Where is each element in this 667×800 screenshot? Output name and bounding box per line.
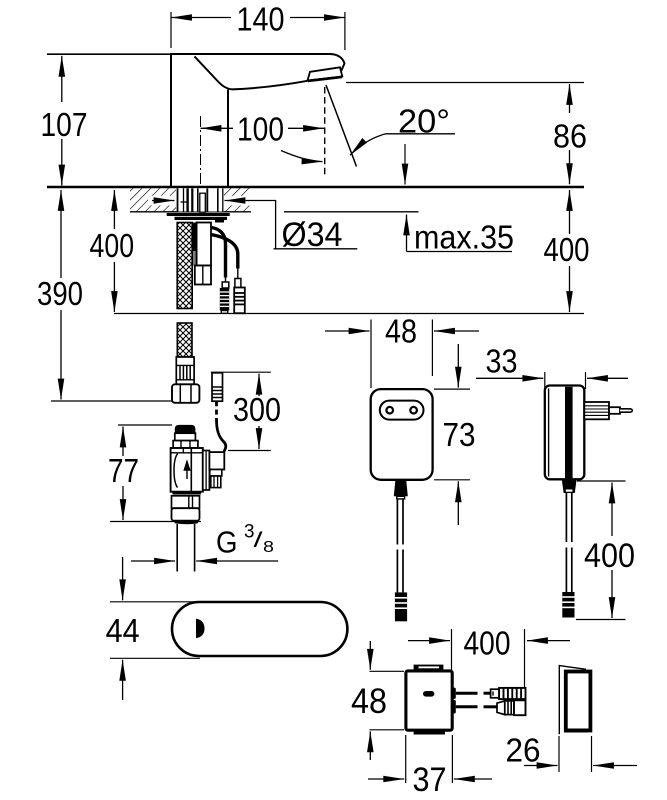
dim 48 box extension lines — [370, 671, 405, 730]
cable 2 from shank — [211, 235, 238, 279]
dim 400 cable dimension line — [408, 640, 570, 642]
svg-text:8: 8 — [263, 539, 274, 556]
plug pin hole right — [410, 407, 417, 414]
svg-text:390: 390 — [37, 275, 83, 312]
dim 400 left dimension line — [113, 190, 115, 312]
dim 37 extension lines — [406, 735, 453, 783]
svg-text:48: 48 — [351, 682, 387, 721]
svg-text:/: / — [254, 529, 263, 552]
braided supply hose — [177, 223, 192, 309]
valve lower section — [172, 496, 200, 508]
max.35 underline — [407, 251, 513, 253]
Ø34 arrows at hole — [152, 201, 357, 249]
dim 390 bottom extension line — [51, 400, 172, 402]
valve detail braided hose — [177, 323, 192, 357]
cable 1 from shank — [211, 228, 226, 283]
valve cable plug — [212, 373, 223, 401]
solenoid flange — [203, 451, 210, 491]
dim 73 dimension line — [457, 344, 459, 525]
dim 86 dimension line — [569, 84, 571, 184]
adapter cable plug — [395, 592, 407, 621]
dim 44 top extension line — [110, 601, 200, 603]
svg-text:300: 300 — [233, 391, 281, 428]
side adapter cable boot — [562, 479, 577, 493]
box cable 2 — [456, 705, 497, 708]
side plate bottom notch — [565, 729, 589, 733]
svg-text:140: 140 — [237, 1, 285, 38]
svg-text:37: 37 — [413, 761, 447, 799]
plug pin hole left — [386, 407, 393, 414]
sensor cable tube — [197, 223, 211, 266]
svg-text:107: 107 — [41, 106, 88, 143]
svg-text:26: 26 — [506, 732, 541, 769]
water stream centerline (dashed) — [324, 87, 326, 176]
dim 300 dimension line — [258, 374, 260, 449]
svg-text:73: 73 — [443, 416, 476, 453]
grohe logo — [423, 691, 434, 697]
svg-text:86: 86 — [553, 118, 587, 155]
G3/8 arrows — [131, 560, 278, 562]
dim 33 extension lines — [545, 372, 586, 389]
adapter cable boot — [394, 481, 408, 499]
angle arc with arrow — [281, 151, 323, 162]
arrow clearing bands — [148, 196, 250, 206]
solenoid coil box — [209, 452, 224, 469]
svg-text:44: 44 — [106, 612, 140, 649]
adapter cable — [397, 499, 403, 592]
svg-text:400: 400 — [544, 231, 590, 268]
dim 400 adapter dimension line — [611, 483, 613, 619]
deck underside line left — [130, 211, 251, 213]
dim 300 bottom extension line — [228, 450, 271, 452]
dim 77 dimension line — [122, 427, 124, 521]
max.35 arrow — [406, 215, 408, 252]
side adapter cable plug — [562, 592, 574, 618]
dim 26 extension lines — [559, 736, 592, 772]
svg-text:100: 100 — [237, 110, 284, 147]
dim 77 bottom extension line — [110, 521, 201, 523]
countertop deck line — [47, 186, 584, 189]
inlet pipe G3/8 — [177, 524, 194, 572]
hose end fitting — [176, 357, 194, 384]
dim 390 dimension line — [60, 190, 62, 400]
dim 33 dimension line — [476, 377, 628, 379]
box plug 2 — [497, 700, 526, 715]
euro plug face — [380, 401, 424, 420]
mains pin — [609, 407, 632, 414]
sensor escutcheon oval — [172, 602, 347, 656]
grey threaded rod — [193, 251, 196, 266]
faucet shank through deck — [177, 188, 225, 212]
power adapter front body — [371, 389, 433, 480]
dim 107 dimension line — [61, 56, 63, 186]
faucet centerline (dash-dot) — [200, 116, 202, 185]
control box body — [406, 671, 452, 730]
mounting washer bar — [167, 213, 230, 223]
svg-text:Ø34: Ø34 — [282, 216, 343, 254]
control box top cap — [414, 665, 444, 671]
dim 48 adapter extension lines — [371, 320, 432, 389]
aerator — [308, 67, 343, 81]
svg-text:20°: 20° — [398, 103, 450, 140]
svg-text:G: G — [216, 526, 238, 560]
control box bottom cap — [414, 730, 445, 734]
power adapter side body — [545, 386, 585, 480]
svg-text:400: 400 — [464, 625, 511, 662]
dim 107 extension line — [47, 53, 171, 55]
lower reference line — [114, 313, 584, 315]
cable 1 plug — [220, 282, 229, 313]
solenoid connector nut — [210, 470, 222, 488]
cable 2 plug — [234, 279, 245, 314]
dim 48 adapter dimension line — [325, 330, 479, 332]
dim 44 bottom extension line — [110, 657, 200, 659]
svg-text:77: 77 — [108, 452, 139, 489]
dim 73 extension lines — [434, 389, 470, 480]
dim 86 extension line — [346, 82, 584, 84]
dim 140 dimension line — [171, 12, 345, 50]
stream drop arrow — [404, 144, 406, 185]
dim 400 adapter extension lines — [576, 481, 626, 620]
valve collar — [173, 441, 198, 448]
dim 400 cable extension lines — [452, 629, 525, 698]
black mounting stud — [193, 223, 197, 252]
side adapter dark stripe — [565, 387, 573, 479]
sensor beam line 20deg — [326, 85, 357, 167]
box plug 1 — [491, 688, 526, 699]
cable stubs — [452, 688, 455, 714]
dim 26 dimension line — [524, 765, 637, 767]
faucet spout underside — [232, 81, 308, 90]
deck hatch left — [130, 188, 176, 211]
valve lower washer — [173, 492, 201, 495]
svg-text:48: 48 — [385, 313, 417, 350]
dim 400 right dimension line — [569, 190, 571, 312]
faucet inner contour — [195, 56, 233, 186]
valve cable dashed then curve — [217, 401, 226, 451]
hose hex nut — [172, 384, 199, 403]
G3/8 label — [216, 522, 274, 560]
dim 300 top extension line — [211, 371, 271, 373]
dim 100 dimension line — [201, 127, 325, 129]
svg-text:max.35: max.35 — [414, 219, 514, 256]
sensor window — [196, 619, 205, 638]
side adapter cable — [566, 493, 571, 592]
box cable 1 — [456, 692, 491, 695]
deck hatch right — [224, 188, 250, 211]
faucet body outline — [171, 54, 345, 186]
dim 48 box dimension line — [369, 641, 371, 760]
connector block — [195, 266, 211, 285]
plug support block — [584, 402, 609, 419]
dim 77 top extension line — [118, 424, 172, 426]
valve hex nut — [172, 508, 200, 524]
valve main body — [171, 448, 203, 492]
deck underside line right — [284, 211, 419, 213]
svg-text:33: 33 — [486, 343, 518, 380]
solenoid valve stem — [175, 425, 196, 441]
svg-text:400: 400 — [584, 537, 635, 575]
dim 37 dimension line — [368, 778, 492, 780]
label 20deg leader — [350, 134, 455, 155]
side plate frame — [566, 672, 591, 731]
dim 44 dimension line — [122, 557, 124, 700]
side plate back — [559, 666, 586, 735]
svg-text:400: 400 — [90, 227, 135, 264]
